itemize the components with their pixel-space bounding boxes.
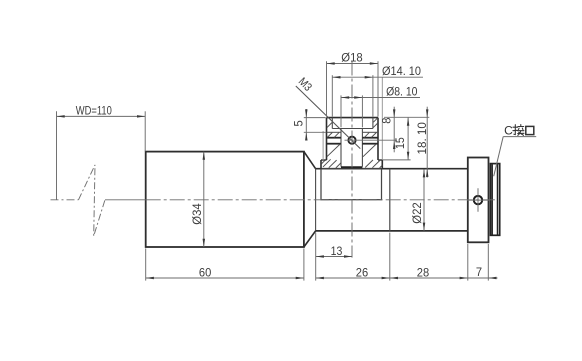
faint line left of boss: [322, 131, 324, 160]
bore bottom bold line: [341, 166, 362, 168]
counterbore bottom step: [332, 128, 373, 130]
boss outer wall right: [377, 118, 379, 160]
svg-text:28: 28: [417, 267, 429, 279]
set screw circle on flange: [474, 196, 482, 204]
top chamfer cone edge: [304, 152, 316, 169]
Ø14.1 counterbore left: [331, 118, 333, 129]
cross hole lower line left wall: [327, 143, 342, 145]
svg-text:Ø18: Ø18: [341, 52, 362, 64]
set screw hole circle on boss: [348, 137, 355, 144]
boss top face: [327, 117, 379, 119]
Ø8.1 bore left: [340, 129, 342, 167]
C-mount thread section: [491, 164, 500, 236]
dimension 8: [393, 107, 395, 153]
label leader line: [494, 137, 504, 177]
step line left at 5mm depth: [327, 131, 342, 133]
base flange top right: [378, 159, 382, 161]
svg-text:C: C: [504, 124, 513, 138]
shared top extension line: [384, 116, 429, 118]
dimension Ø8.10: [341, 97, 420, 99]
svg-text:7: 7: [476, 267, 482, 279]
dimension 13: [316, 256, 353, 258]
dimension 60: [146, 277, 304, 279]
faint extension line right of boss: [381, 78, 383, 161]
dimension Ø22: [423, 169, 425, 231]
thread inner line left: [491, 164, 493, 234]
joint line between 26 and 28 sections: [389, 169, 391, 231]
dimension 28: [390, 277, 468, 279]
hatching boss walls: [327, 123, 332, 128]
main centerline through part: [146, 199, 495, 201]
boss outer wall left: [326, 118, 328, 160]
dimension 15: [407, 118, 409, 160]
step line right at 5mm depth: [362, 131, 378, 133]
optical axis centerline left: [51, 199, 79, 201]
svg-text:5: 5: [294, 120, 306, 126]
base flange left edge: [320, 160, 322, 169]
axis solid segment: [105, 199, 146, 201]
label C interface: glyph jie (drawn): [513, 125, 524, 136]
dimension 26: [316, 277, 390, 279]
cross hole lower line right wall: [362, 143, 378, 145]
mid and Ø22 section top edge: [316, 168, 468, 170]
main cylinder body Ø34: [146, 152, 304, 247]
svg-text:8: 8: [382, 117, 394, 123]
svg-text:Ø22: Ø22: [412, 202, 424, 223]
bottom chamfer cone edge: [304, 231, 316, 247]
cone-cylinder tangent edge: [315, 169, 317, 231]
screw horizontal crosshair: [467, 199, 489, 201]
svg-text:26: 26: [356, 267, 368, 279]
dimension 7: [468, 277, 498, 279]
dimension 5: [305, 109, 307, 139]
dimension Ø34: [203, 152, 205, 247]
C-mount flange: [468, 158, 489, 243]
label underline: [503, 136, 536, 138]
base flange right edge: [381, 160, 383, 169]
svg-text:Ø14. 10: Ø14. 10: [382, 66, 421, 78]
dimension Ø18: [327, 63, 379, 65]
label C interface: glyph kou (drawn): [526, 126, 534, 134]
svg-text:15: 15: [395, 137, 407, 149]
svg-text:Ø34: Ø34: [192, 203, 204, 225]
screw vertical crosshair: [477, 188, 479, 211]
cross hole upper line right wall: [362, 137, 378, 139]
boss vertical centerline: [351, 62, 353, 258]
base flange top left: [321, 159, 327, 161]
Ø14.1 counterbore right: [372, 118, 374, 129]
cross hole upper line left wall: [327, 137, 342, 139]
svg-text:60: 60: [199, 267, 211, 279]
svg-text:18. 10: 18. 10: [417, 122, 429, 154]
dimension WD=110: [57, 115, 146, 117]
dimension Ø14.10: [332, 76, 423, 78]
mid and Ø22 section bottom edge: [316, 230, 468, 232]
M3 leader line: [296, 86, 361, 149]
break zigzag on axis: [79, 165, 106, 236]
thread inner line right: [497, 164, 499, 234]
svg-text:13: 13: [331, 246, 343, 258]
svg-text:Ø8. 10: Ø8. 10: [386, 86, 417, 98]
boss seat rectangle on mid section: [321, 169, 382, 200]
Ø8.1 bore right: [361, 129, 363, 167]
cross hole axis line: [345, 139, 398, 141]
svg-text:WD=110: WD=110: [76, 105, 112, 117]
dimension 18.10: [426, 107, 428, 178]
